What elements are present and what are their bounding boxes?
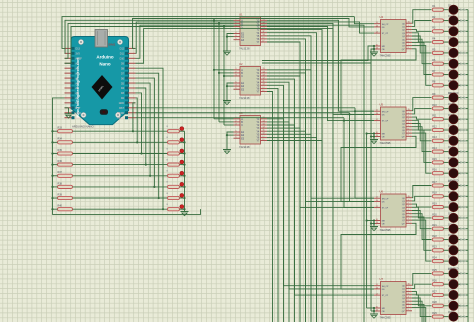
svg-text:4: 4 xyxy=(236,134,237,136)
svg-text:6: 6 xyxy=(408,128,409,130)
svg-text:6: 6 xyxy=(236,32,237,34)
svg-text:4: 4 xyxy=(408,209,409,211)
wire A-pins staircase to buttons xyxy=(132,68,164,210)
svg-text:10: 10 xyxy=(376,132,378,134)
svg-text:U6: U6 xyxy=(380,190,384,194)
wire GND stub left side xyxy=(68,108,70,114)
svg-text:12: 12 xyxy=(376,206,378,208)
svg-text:3: 3 xyxy=(236,74,237,76)
svg-text:SH_CP: SH_CP xyxy=(382,111,389,113)
svg-text:10: 10 xyxy=(376,306,378,308)
svg-text:4: 4 xyxy=(408,34,409,36)
resistor R9 + LED D9 xyxy=(432,92,468,102)
wire U5 MR/OE to ground xyxy=(373,134,375,141)
svg-text:11: 11 xyxy=(263,130,265,132)
resistor R33 + button row 1 xyxy=(58,126,185,133)
shift register 74HC595 U7 xyxy=(374,277,412,320)
svg-text:11: 11 xyxy=(263,81,265,83)
shift register 74HC595 U4 xyxy=(374,15,412,58)
svg-text:2: 2 xyxy=(408,290,409,292)
ground below U6 left pins xyxy=(370,227,378,231)
svg-text:ST_CP: ST_CP xyxy=(382,33,389,35)
svg-text:7: 7 xyxy=(408,306,409,308)
resistor R25 + LED D25 xyxy=(432,268,468,278)
resistor R4 + LED D4 xyxy=(432,37,468,47)
svg-text:1: 1 xyxy=(408,112,409,114)
wire clock/data lines from right pins xyxy=(133,19,375,322)
svg-text:D13: D13 xyxy=(76,48,81,51)
svg-text:GND: GND xyxy=(119,102,125,105)
svg-text:13: 13 xyxy=(376,47,378,49)
svg-text:74LS138: 74LS138 xyxy=(239,145,250,149)
svg-text:11: 11 xyxy=(376,22,378,24)
svg-text:2: 2 xyxy=(236,120,237,122)
svg-text:MR: MR xyxy=(382,308,386,310)
svg-text:12: 12 xyxy=(376,294,378,296)
svg-text:RST: RST xyxy=(119,107,124,110)
svg-text:1: 1 xyxy=(408,25,409,27)
wire 138 output fans xyxy=(267,20,374,322)
svg-text:74LS138: 74LS138 xyxy=(239,47,250,51)
svg-text:U7: U7 xyxy=(380,277,384,281)
svg-text:4: 4 xyxy=(236,35,237,37)
resistor R29 + LED D29 xyxy=(432,311,468,321)
svg-text:15: 15 xyxy=(408,109,410,111)
svg-text:6: 6 xyxy=(408,41,409,43)
ground below U4 left pins xyxy=(370,52,378,56)
wire 595 cascade Q7'->DS xyxy=(341,49,416,289)
svg-text:15: 15 xyxy=(263,68,265,70)
svg-text:11: 11 xyxy=(263,31,265,33)
svg-text:SH_CP: SH_CP xyxy=(382,24,389,26)
resistor R16 + LED D16 xyxy=(432,168,468,178)
wire MR bus xyxy=(366,132,375,308)
resistor R20 + LED D20 xyxy=(432,213,468,223)
svg-text:5: 5 xyxy=(408,212,409,214)
svg-text:U2: U2 xyxy=(239,62,243,66)
resistor R14 + LED D14 xyxy=(432,146,468,156)
svg-text:15: 15 xyxy=(263,19,265,21)
resistor R13 + LED D13 xyxy=(432,135,468,145)
svg-text:12: 12 xyxy=(263,127,265,129)
ground below U5 left pins xyxy=(370,140,378,144)
svg-text:Nano: Nano xyxy=(99,62,111,67)
svg-text:8: 8 xyxy=(263,139,264,141)
svg-text:ST_CP: ST_CP xyxy=(382,121,389,123)
svg-text:10: 10 xyxy=(263,133,265,135)
resistor R28 + LED D28 xyxy=(432,300,468,310)
svg-text:7: 7 xyxy=(408,132,409,134)
svg-text:6: 6 xyxy=(408,303,409,305)
svg-text:U4: U4 xyxy=(380,15,384,19)
svg-text:74HC595: 74HC595 xyxy=(380,316,392,320)
svg-text:5: 5 xyxy=(408,300,409,302)
svg-text:Arduino: Arduino xyxy=(96,55,113,60)
svg-text:ST_CP: ST_CP xyxy=(382,208,389,210)
resistor R36 + button row 4 xyxy=(58,159,185,166)
svg-text:4: 4 xyxy=(236,85,237,87)
svg-text:1: 1 xyxy=(408,199,409,201)
svg-text:15: 15 xyxy=(408,196,410,198)
svg-text:3V3: 3V3 xyxy=(76,53,81,56)
svg-text:13: 13 xyxy=(376,309,378,311)
resistor R1 + LED D1 xyxy=(432,4,468,14)
resistor R10 + LED D10 xyxy=(432,103,468,113)
svg-text:14: 14 xyxy=(376,200,378,202)
svg-text:2: 2 xyxy=(408,116,409,118)
resistor R21 + LED D21 xyxy=(432,223,468,233)
svg-text:1: 1 xyxy=(236,68,237,70)
wire OE bus xyxy=(370,63,374,311)
svg-text:3: 3 xyxy=(408,293,409,295)
svg-text:14: 14 xyxy=(263,71,265,73)
svg-text:10: 10 xyxy=(376,219,378,221)
svg-text:12: 12 xyxy=(376,32,378,34)
svg-text:MR: MR xyxy=(382,134,386,136)
svg-text:12: 12 xyxy=(376,119,378,121)
wire select bus wrap around Arduino xyxy=(62,17,354,64)
svg-text:15: 15 xyxy=(408,22,410,24)
svg-text:D10: D10 xyxy=(120,58,125,61)
svg-text:3: 3 xyxy=(408,119,409,121)
wire Q fan U4 to LEDs xyxy=(412,10,432,86)
resistor R22 + LED D22 xyxy=(432,234,468,244)
svg-text:5V: 5V xyxy=(76,102,79,105)
resistor R26 + LED D26 xyxy=(432,279,468,289)
svg-text:5: 5 xyxy=(236,88,237,90)
resistor R8 + LED D8 xyxy=(432,80,468,90)
svg-text:9: 9 xyxy=(263,136,264,138)
resistor R35 + button row 3 xyxy=(58,148,185,155)
svg-text:AREF: AREF xyxy=(76,58,83,61)
svg-text:5: 5 xyxy=(408,38,409,40)
svg-text:ARDUINO NANO: ARDUINO NANO xyxy=(72,125,95,129)
svg-text:6: 6 xyxy=(236,130,237,132)
resistor R24 + LED D24 xyxy=(432,256,468,266)
Arduino Nano U9 (SIM1) xyxy=(65,30,136,125)
svg-text:15: 15 xyxy=(408,284,410,286)
svg-text:11: 11 xyxy=(376,197,378,199)
wire Q fan U7 to LEDs xyxy=(412,273,432,322)
shift register 74HC595 U5 xyxy=(374,103,412,146)
wire Q fan U6 to LEDs xyxy=(412,186,432,262)
resistor R2 + LED D2 xyxy=(432,15,468,25)
ground below U2 xyxy=(223,101,231,105)
resistor R7 + LED D7 xyxy=(432,69,468,79)
svg-text:8: 8 xyxy=(263,90,264,92)
svg-text:SH_CP: SH_CP xyxy=(382,286,389,288)
svg-text:5: 5 xyxy=(408,125,409,127)
svg-text:2: 2 xyxy=(408,203,409,205)
resistor R37 + button row 5 xyxy=(58,171,185,178)
wire Q fan U5 to LEDs xyxy=(412,98,432,174)
wire U3 enable pins to ground xyxy=(227,132,234,150)
svg-text:1: 1 xyxy=(408,287,409,289)
svg-text:13: 13 xyxy=(263,74,265,76)
ground below U7 left pins xyxy=(370,314,378,318)
svg-text:9: 9 xyxy=(408,309,409,311)
svg-text:SIM1: SIM1 xyxy=(108,43,115,47)
resistor R18 + LED D18 xyxy=(432,191,468,201)
resistor R6 + LED D6 xyxy=(432,58,468,68)
svg-text:2: 2 xyxy=(236,71,237,73)
svg-text:U5: U5 xyxy=(380,103,384,107)
decoder 74LS138 U3 xyxy=(234,111,268,149)
svg-text:13: 13 xyxy=(263,123,265,125)
svg-text:13: 13 xyxy=(376,222,378,224)
resistor R5 + LED D5 xyxy=(432,48,468,58)
wire U7 MR/OE to ground xyxy=(373,308,375,315)
ground left of Arduino xyxy=(65,114,73,118)
svg-text:10: 10 xyxy=(263,34,265,36)
wire U2 enable pins to ground xyxy=(227,83,234,101)
svg-text:9: 9 xyxy=(408,135,409,137)
svg-text:VIN: VIN xyxy=(76,117,80,120)
svg-text:74HC595: 74HC595 xyxy=(380,54,392,58)
svg-text:1: 1 xyxy=(236,19,237,21)
resistor R19 + LED D19 xyxy=(432,202,468,212)
wire U4 MR/OE to ground xyxy=(373,46,375,53)
svg-text:14: 14 xyxy=(263,120,265,122)
svg-text:4: 4 xyxy=(408,122,409,124)
wire button pull bus xyxy=(53,98,201,214)
ground button bus xyxy=(181,212,189,216)
svg-text:12: 12 xyxy=(263,78,265,80)
svg-text:TX/D1: TX/D1 xyxy=(117,117,124,120)
resistor R11 + LED D11 xyxy=(432,114,468,124)
wire U6 MR/OE to ground xyxy=(373,221,375,228)
decoder 74LS138 U1 xyxy=(234,13,268,51)
svg-text:74LS138: 74LS138 xyxy=(239,96,250,100)
svg-text:MR: MR xyxy=(382,46,386,48)
resistor R40 + button row 8 xyxy=(58,204,185,211)
resistor R34 + button row 2 xyxy=(58,137,185,144)
svg-text:10: 10 xyxy=(376,44,378,46)
svg-text:5: 5 xyxy=(236,38,237,40)
svg-text:GND: GND xyxy=(76,112,82,115)
svg-text:11: 11 xyxy=(376,110,378,112)
svg-text:3: 3 xyxy=(236,123,237,125)
decoder 74LS138 U2 xyxy=(234,62,268,100)
wire clock/latch feeds to U5-U7 xyxy=(136,108,375,208)
wire long horizontals below U1 to U4 MR xyxy=(262,46,374,61)
svg-text:U1: U1 xyxy=(239,13,243,17)
shift register 74HC595 U6 xyxy=(374,190,412,233)
svg-text:5: 5 xyxy=(236,137,237,139)
resistor R27 + LED D27 xyxy=(432,290,468,300)
svg-text:RX/D0: RX/D0 xyxy=(117,112,125,115)
svg-text:11: 11 xyxy=(376,284,378,286)
svg-text:2: 2 xyxy=(408,28,409,30)
svg-text:D12: D12 xyxy=(120,48,125,51)
svg-text:6: 6 xyxy=(408,215,409,217)
ground below U1 xyxy=(223,51,231,55)
svg-text:7: 7 xyxy=(408,219,409,221)
wire button ground bus xyxy=(183,130,185,132)
resistor R12 + LED D12 xyxy=(432,125,468,135)
resistor R39 + button row 7 xyxy=(58,193,185,200)
svg-text:74HC595: 74HC595 xyxy=(380,228,392,232)
wire LED cathode bus xyxy=(467,10,469,322)
svg-text:4: 4 xyxy=(408,296,409,298)
wire wrap w0 drop to U4 xyxy=(354,17,374,24)
svg-text:MR: MR xyxy=(382,221,386,223)
wire U1 enable pins to ground xyxy=(227,34,234,52)
svg-text:13: 13 xyxy=(376,135,378,137)
resistor R23 + LED D23 xyxy=(432,245,468,255)
svg-text:9: 9 xyxy=(263,37,264,39)
svg-text:9: 9 xyxy=(263,87,264,89)
svg-text:74HC595: 74HC595 xyxy=(380,141,392,145)
ground below U3 xyxy=(223,150,231,154)
svg-text:3: 3 xyxy=(408,31,409,33)
svg-text:14: 14 xyxy=(376,287,378,289)
svg-text:3: 3 xyxy=(408,206,409,208)
svg-text:9: 9 xyxy=(408,222,409,224)
resistor R17 + LED D17 xyxy=(432,180,468,190)
resistor R3 + LED D3 xyxy=(432,26,468,36)
resistor R15 + LED D15 xyxy=(432,157,468,167)
svg-text:ST_CP: ST_CP xyxy=(382,295,389,297)
svg-text:10: 10 xyxy=(263,84,265,86)
svg-text:SH_CP: SH_CP xyxy=(382,198,389,200)
resistor R38 + button row 6 xyxy=(58,182,185,189)
svg-text:7: 7 xyxy=(408,44,409,46)
svg-text:14: 14 xyxy=(376,25,378,27)
svg-text:RST: RST xyxy=(76,107,81,110)
wire select bus verticals xyxy=(213,19,234,125)
svg-text:8: 8 xyxy=(263,40,264,42)
svg-text:D11: D11 xyxy=(120,53,125,56)
svg-text:9: 9 xyxy=(408,47,409,49)
svg-text:6: 6 xyxy=(236,81,237,83)
svg-text:14: 14 xyxy=(376,113,378,115)
